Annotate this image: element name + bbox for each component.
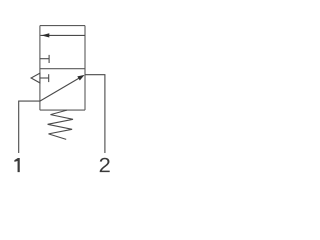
return spring (zigzag below body) [48, 110, 73, 139]
pilot triangle (left, open) [31, 73, 40, 83]
diagonal arrowhead (points to port 2) [77, 75, 84, 81]
valve body outline (2-position box) [40, 26, 85, 111]
upper position flow arrow (points left) [41, 34, 86, 36]
position divider [40, 68, 85, 70]
port 1 connection line [19, 101, 40, 153]
port label 2 [100, 158, 110, 172]
upper arrowhead [41, 33, 49, 37]
lower blocked-port T [40, 74, 49, 82]
lower position diagonal flow path [40, 78, 80, 101]
port 2 connection line [85, 75, 105, 153]
port label 1 [14, 158, 19, 172]
upper blocked-port T [40, 55, 49, 63]
